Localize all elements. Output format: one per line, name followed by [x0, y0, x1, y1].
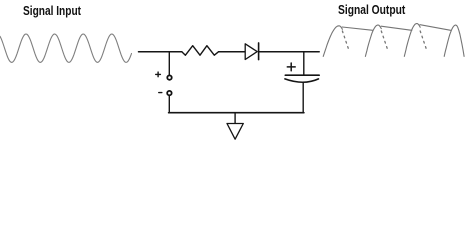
- terminal circle	[167, 91, 171, 95]
wire: resistor to diode	[219, 51, 246, 53]
wire: capacitor to bottom rail	[302, 83, 304, 113]
label: Signal Output	[338, 2, 405, 17]
capacitor top plate	[285, 74, 319, 76]
output hump 4 (solid full arc)	[444, 25, 464, 56]
output decay line 1	[342, 27, 373, 30]
capacitor bottom plate (curved)	[285, 79, 319, 82]
output dashed falling edge 2	[381, 31, 388, 51]
wire: bottom rail	[169, 112, 304, 114]
output dashed falling edge 3	[420, 31, 427, 51]
wire: node down to capacitor	[303, 52, 305, 75]
output hump 2 (solid arc)	[365, 25, 381, 56]
input sine waveform	[0, 34, 132, 62]
output hump 1 (solid arc)	[323, 26, 342, 57]
label: Signal Input	[23, 3, 81, 18]
wire: diode to output node	[259, 51, 320, 53]
output decay line 2	[381, 26, 412, 30]
output decay line 3	[420, 25, 451, 31]
resistor	[182, 46, 219, 56]
capacitor + polarity mark	[287, 63, 295, 71]
wire: top rail, input to resistor	[139, 51, 182, 53]
diode (triangle anode)	[245, 44, 257, 60]
wire: - terminal down to bottom rail	[168, 95, 170, 112]
wire: junction drop to + terminal	[168, 52, 170, 75]
+ terminal label	[156, 72, 161, 77]
- terminal label	[159, 92, 162, 94]
+ terminal circle	[167, 75, 171, 79]
diode cathode bar	[258, 43, 260, 60]
output hump 3 (solid arc)	[404, 24, 420, 57]
wire: ground stem	[234, 113, 236, 124]
ground symbol	[227, 124, 243, 140]
output dashed falling edge 1	[342, 31, 349, 51]
